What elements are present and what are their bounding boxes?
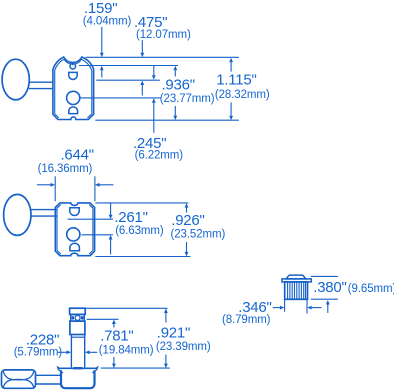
button shaft (rear view, top) <box>29 82 53 88</box>
baseplate inner outline (rear view, top) <box>55 59 92 118</box>
baseplate outer outline (rear view, top) <box>53 57 94 120</box>
dimension .261in arrow up <box>109 235 113 255</box>
shaft through-hole bar on lip <box>73 367 82 369</box>
extension line Bv2 bushing right <box>306 300 308 314</box>
dimension .644in arrow left <box>95 183 114 187</box>
svg-text:(4.04mm): (4.04mm) <box>83 15 132 27</box>
dimension .781in arrow down <box>112 357 116 368</box>
svg-text:1.115": 1.115" <box>216 71 256 88</box>
dimension .159in arrow up <box>100 66 104 78</box>
bushing cap dome <box>286 275 306 279</box>
extension line E2 right of plate <box>94 176 96 201</box>
dimension .936in arrow down <box>173 106 177 120</box>
extension line L1m top of middle plate <box>95 202 188 204</box>
dimension .380in arrow up <box>326 300 330 313</box>
post shaft left edge (side view) <box>70 335 72 368</box>
svg-text:.936": .936" <box>162 77 195 94</box>
bearing race mark left <box>72 316 74 319</box>
svg-text:(28.32mm): (28.32mm) <box>215 89 270 101</box>
extension line S2 bearing center <box>87 318 119 320</box>
dimension 1.115in arrow down <box>229 102 233 120</box>
plate wall bend right <box>92 370 96 373</box>
baseplate inner outline (front view, middle) <box>57 205 93 255</box>
extension line L3 worm pocket <box>96 79 160 81</box>
svg-text:(23.52mm): (23.52mm) <box>171 228 226 240</box>
gear housing box (side view) <box>70 321 85 334</box>
dimension .926in arrow up <box>185 203 189 212</box>
svg-text:.159": .159" <box>84 0 117 17</box>
dimension .781in arrow up <box>112 320 116 328</box>
extension line L3m gear center middle <box>82 234 113 236</box>
svg-text:.781": .781" <box>100 328 133 345</box>
extension line L4 gear center <box>80 97 161 99</box>
extension line B2 bushing bottom <box>311 298 338 300</box>
mounting plate lip (side view) <box>58 367 97 369</box>
extension line S1 top of post <box>86 307 168 309</box>
dimension .245in arrow up <box>152 98 156 133</box>
button (side view) top concave curve <box>3 371 34 380</box>
svg-text:(5.79mm): (5.79mm) <box>14 346 63 358</box>
svg-text:(23.39mm): (23.39mm) <box>156 341 211 353</box>
svg-text:.380": .380" <box>313 279 346 296</box>
extension line L4m bottom of middle plate <box>95 256 190 258</box>
svg-text:.261": .261" <box>114 209 147 226</box>
button shaft (front view, middle) <box>31 210 57 217</box>
tuner button (front view, middle) <box>4 194 31 235</box>
dimension .475in arrow up <box>140 81 144 96</box>
plate wall bend left <box>59 370 63 373</box>
string post cap (side view) <box>70 308 86 314</box>
svg-text:(8.79mm): (8.79mm) <box>222 314 271 326</box>
dimension .159in arrow down <box>100 27 104 57</box>
dimension .228in arrow left <box>85 350 97 354</box>
bearing race mark right <box>81 316 84 319</box>
plate lip right wing tip <box>95 366 99 371</box>
button (side view) outline <box>2 370 36 388</box>
svg-text:.926": .926" <box>171 212 204 229</box>
svg-text:(6.63mm): (6.63mm) <box>115 225 164 237</box>
dimension .228in arrow right <box>58 350 71 354</box>
svg-text:(16.36mm): (16.36mm) <box>38 163 93 175</box>
dimension .921in arrow up <box>164 309 168 323</box>
bushing flange <box>282 279 311 282</box>
dimension .644in arrow right <box>37 183 55 187</box>
extension line S3 plate lip <box>101 367 170 369</box>
svg-text:.644": .644" <box>61 147 94 164</box>
bushing knurled body <box>285 282 308 299</box>
post shaft joint line (side view) <box>72 336 84 338</box>
worm gear pocket upper (rear view, top) <box>69 72 78 79</box>
extension line L2 post hole <box>79 65 178 67</box>
extension line L2m worm pocket middle <box>68 218 113 220</box>
gear wheel circle (front view, middle) <box>67 228 80 241</box>
dimension .475in arrow down <box>140 40 144 57</box>
dimension .245in arrow down <box>152 66 156 80</box>
svg-text:(9.65mm): (9.65mm) <box>348 283 394 295</box>
post shaft right edge (side view) <box>84 335 86 368</box>
extension line L1 top of plate <box>86 56 239 58</box>
baseplate outer outline (front view, middle) <box>55 203 94 256</box>
plate lip left wing tip <box>57 366 61 371</box>
extension line B1 bushing top <box>311 275 338 277</box>
tuner button (rear view, top) <box>2 59 29 100</box>
extension line L5 bottom of plate <box>95 119 239 121</box>
dimension 1.115in arrow up <box>229 58 233 72</box>
dimension .926in arrow down <box>185 242 189 256</box>
bearing ball circle (side view) <box>75 315 80 320</box>
worm gear pocket (front view, middle) <box>70 208 79 216</box>
svg-text:(23.77mm): (23.77mm) <box>160 93 215 105</box>
plate body (side view) <box>61 370 95 388</box>
lower arch pocket (front view, middle) <box>70 243 80 251</box>
dimension .936in arrow up <box>173 66 177 77</box>
extension line E1 left of plate <box>54 176 56 201</box>
lower arch pocket (rear view, top) <box>69 107 78 114</box>
dimension .346in arrow left <box>307 306 321 310</box>
dimension .921in arrow down <box>164 355 168 369</box>
extension line Bv1 bushing left <box>284 300 286 312</box>
svg-text:.921": .921" <box>157 324 190 341</box>
svg-text:(6.22mm): (6.22mm) <box>135 150 184 162</box>
gear wheel circle (rear view, top) <box>67 91 80 104</box>
post hole small circle (rear view, top) <box>70 64 76 70</box>
dimension .346in arrow right <box>273 306 285 310</box>
dimension .261in arrow down <box>109 203 113 219</box>
svg-text:(12.07mm): (12.07mm) <box>136 29 191 41</box>
button shaft (side view) <box>36 375 61 384</box>
bushing knurl lines <box>288 283 306 299</box>
svg-text:(19.84mm): (19.84mm) <box>99 344 154 356</box>
bearing housing (side view) <box>71 315 85 322</box>
button (side view) bottom concave curve <box>3 379 34 387</box>
